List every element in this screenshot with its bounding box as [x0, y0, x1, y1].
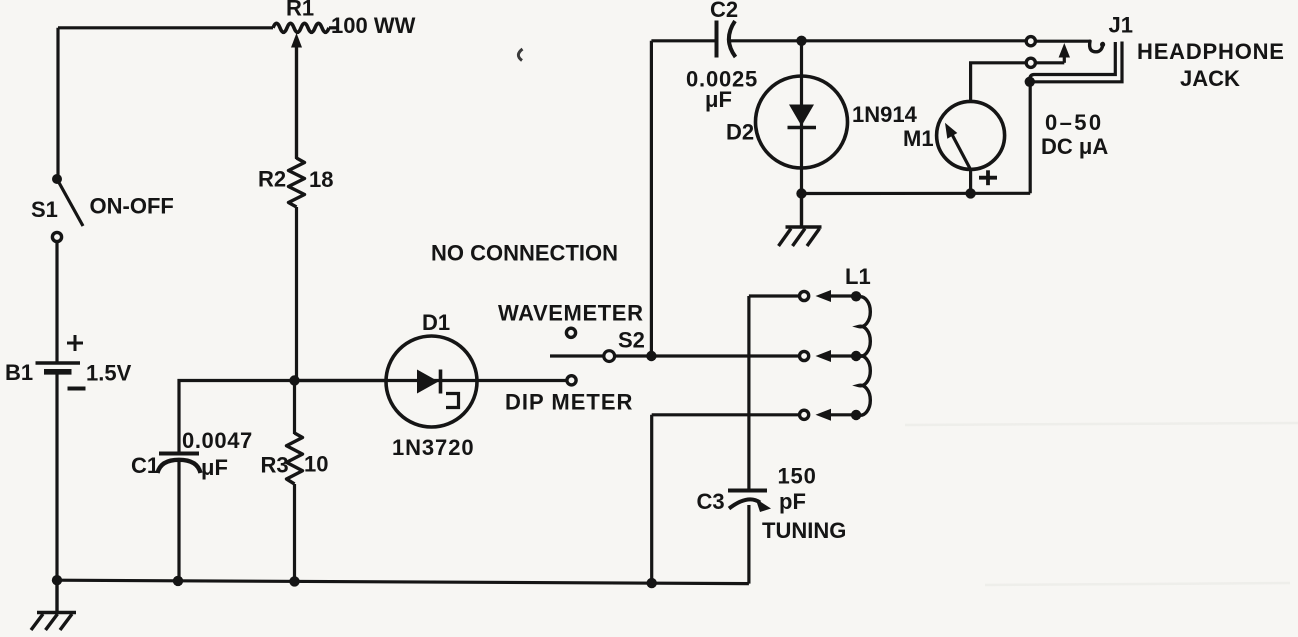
bottom rail wire — [57, 580, 749, 583]
svg-text:DC μA: DC μA — [1041, 134, 1108, 159]
svg-text:D1: D1 — [422, 310, 450, 335]
L1 middle tap — [800, 351, 809, 360]
node R3 bottom junction — [289, 576, 299, 586]
switch S2 pivot — [604, 351, 615, 362]
svg-text:DIP METER: DIP METER — [505, 390, 633, 415]
switch S2 arm — [550, 354, 603, 357]
svg-text:0–50: 0–50 — [1045, 110, 1104, 135]
wire S2 to L1 middle tap — [615, 354, 799, 357]
ground (under D2) — [779, 194, 822, 247]
wire L1 top tap down to C3 — [747, 296, 750, 490]
wire J1 contact to arrow — [1035, 61, 1064, 64]
J1 switch arrow — [1059, 43, 1070, 63]
node DIP METER contact — [567, 376, 576, 385]
J1 tip hook — [1090, 41, 1103, 52]
L1 coil loops — [859, 297, 871, 415]
wire J1 sleeve down to bottom row — [1029, 82, 1032, 194]
wire node row to C1 corner — [179, 381, 387, 454]
svg-text:D2: D2 — [726, 120, 754, 145]
node C1 bottom junction — [173, 576, 183, 586]
svg-text:M1: M1 — [903, 126, 934, 151]
wire L1 bottom tap branch down — [650, 415, 653, 583]
svg-text:1N3720: 1N3720 — [392, 435, 474, 460]
wire D2 to M1 bottom row — [802, 192, 1031, 195]
svg-text:WAVEMETER: WAVEMETER — [498, 301, 644, 326]
scan artifact crescent — [518, 49, 522, 61]
svg-text:HEADPHONE: HEADPHONE — [1137, 39, 1285, 64]
capacitor C3 (variable) — [728, 491, 771, 584]
node R2/R3/D1 junction — [289, 375, 299, 385]
node S2 junction — [646, 351, 656, 361]
switch S1 — [52, 174, 83, 242]
wire J1 tip lead — [1035, 40, 1090, 43]
svg-text:S1: S1 — [31, 197, 58, 222]
node J1 sleeve junction — [1025, 77, 1035, 87]
capacitor C1 — [158, 454, 201, 582]
wire top rail right — [802, 39, 1027, 42]
svg-text:B1: B1 — [5, 360, 33, 385]
L1 bottom tap — [652, 413, 799, 416]
J1 plug body outer — [1030, 42, 1123, 82]
L1 top tap wire — [749, 294, 799, 297]
svg-text:NO CONNECTION: NO CONNECTION — [431, 241, 618, 266]
svg-text:18: 18 — [309, 167, 333, 192]
wire D1 row — [295, 379, 568, 382]
svg-text:L1: L1 — [845, 264, 871, 289]
node D2 bottom junction — [796, 188, 806, 198]
resistor R2 — [289, 44, 305, 381]
resistor R3 — [287, 381, 303, 582]
svg-text:10: 10 — [304, 452, 328, 477]
resistor R1 — [273, 23, 338, 32]
node M1 bottom junction — [965, 188, 975, 198]
node L1 branch bottom junction — [647, 578, 657, 588]
ground (left) — [31, 580, 76, 630]
svg-text:μF: μF — [705, 87, 732, 112]
J1 plug body inner — [1030, 42, 1116, 79]
svg-text:150: 150 — [778, 464, 817, 489]
tunnel diode D1 — [386, 336, 477, 427]
svg-text:S2: S2 — [618, 328, 645, 353]
wire left vertical — [56, 28, 59, 180]
svg-text:R1: R1 — [286, 0, 314, 21]
node bottom-left junction — [52, 575, 62, 585]
wire top-left horizontal — [58, 26, 273, 29]
svg-text:1.5V: 1.5V — [86, 361, 132, 386]
node J1 switch contact — [1026, 58, 1035, 67]
meter M1 — [937, 101, 1005, 185]
svg-text:100 WW: 100 WW — [331, 13, 416, 38]
wire M1 bottom stub — [969, 170, 972, 194]
svg-text:μF: μF — [201, 455, 228, 480]
svg-text:JACK: JACK — [1180, 66, 1240, 91]
svg-text:1N914: 1N914 — [852, 102, 918, 127]
node C2/D2 junction — [796, 36, 806, 46]
wire S2 junction up to top rail — [650, 41, 653, 356]
svg-text:C2: C2 — [710, 0, 738, 22]
R1 wiper arrow — [291, 33, 302, 158]
battery B1 — [36, 335, 86, 389]
svg-text:J1: J1 — [1109, 13, 1133, 38]
svg-text:R3: R3 — [261, 453, 289, 478]
svg-text:C3: C3 — [697, 489, 725, 514]
svg-text:pF: pF — [779, 489, 806, 514]
diode D2 — [756, 41, 848, 194]
wire top rail left — [651, 39, 716, 42]
wire S1 to B1 — [55, 242, 58, 362]
svg-text:ON-OFF: ON-OFF — [90, 194, 174, 219]
svg-text:R2: R2 — [258, 167, 286, 192]
wire M1 top to J1 — [971, 63, 1027, 102]
node J1 tip contact — [1026, 37, 1035, 46]
svg-text:TUNING: TUNING — [762, 518, 846, 543]
node WAVEMETER contact — [566, 328, 575, 337]
svg-text:C1: C1 — [131, 453, 159, 478]
inductor L1 — [652, 290, 871, 421]
wire B1 to bottom rail — [55, 374, 58, 580]
capacitor C2 — [717, 21, 802, 58]
svg-text:0.0047: 0.0047 — [182, 428, 253, 453]
